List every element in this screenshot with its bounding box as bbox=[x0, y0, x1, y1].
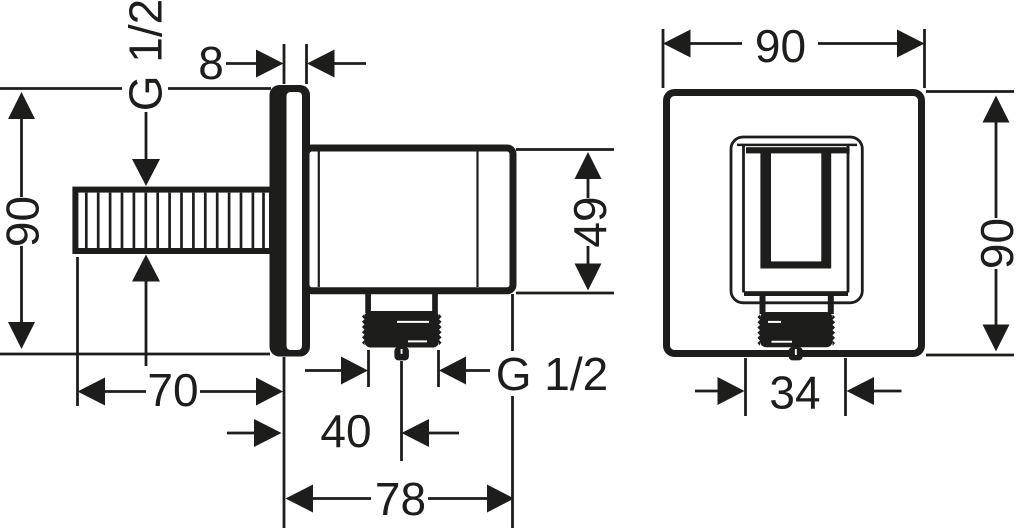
thread highlight streaks (front) bbox=[768, 321, 781, 323]
dim 90 right: arrows, stems, text bbox=[983, 96, 1010, 123]
dim 90 left: arrows and lines bbox=[8, 92, 35, 119]
dim 90 top: extension lines bbox=[662, 29, 665, 88]
holder cube side lines bbox=[742, 146, 745, 293]
outlet thread block (front view) bbox=[760, 312, 833, 347]
svg-text:40: 40 bbox=[320, 405, 371, 457]
dim 90 right: extension lines bbox=[926, 92, 1014, 356]
svg-text:90: 90 bbox=[971, 218, 1023, 269]
dim 78: arrows, lines, text bbox=[286, 485, 314, 513]
dim 70: arrows, line, text bbox=[78, 378, 106, 406]
label G 1/2 (outlet): arrows bbox=[305, 369, 341, 372]
svg-text:G 1/2: G 1/2 bbox=[120, 0, 172, 111]
dim 49: extension lines bbox=[516, 150, 614, 294]
holder cube top inner line bbox=[737, 144, 857, 147]
holder cube bottom line bbox=[744, 291, 848, 296]
svg-text:90: 90 bbox=[755, 20, 806, 72]
outlet neck (front view) bbox=[760, 296, 766, 314]
dim 78: right extension (interrupted by G 1/2 text) bbox=[511, 294, 514, 528]
dim 49: arrows, stems, text bbox=[575, 152, 602, 179]
outlet drip tip (left view) bbox=[394, 347, 409, 360]
square escutcheon (front view) bbox=[667, 93, 922, 354]
outlet neck (left view) bbox=[365, 292, 371, 313]
svg-text:90: 90 bbox=[0, 196, 49, 247]
body (left view) bbox=[306, 148, 513, 291]
svg-text:G 1/2: G 1/2 bbox=[496, 348, 609, 400]
leader line for G 1/2 bbox=[0, 87, 271, 90]
wall pipe outline (left view, threaded connector) bbox=[75, 190, 272, 251]
pipe diameter arrows bbox=[145, 112, 148, 159]
dim 34: extension lines bbox=[744, 358, 747, 416]
dim 40: arrows and text bbox=[227, 432, 254, 435]
thread highlight streaks bbox=[397, 321, 429, 323]
holder window sill bbox=[763, 261, 829, 268]
holder window bars bbox=[760, 148, 771, 269]
dim 90 top: arrows, lines, text bbox=[663, 30, 691, 58]
outlet drip tip (front view) bbox=[789, 347, 803, 360]
escutcheon plate (side profile) bbox=[270, 85, 311, 357]
svg-text:8: 8 bbox=[198, 37, 224, 89]
dim 8: leader and arrows bbox=[226, 62, 256, 65]
body joint line left bbox=[318, 152, 320, 288]
svg-text:70: 70 bbox=[147, 364, 198, 416]
pipe thread hatching bbox=[86, 193, 263, 248]
outlet thread block (left view) bbox=[365, 311, 440, 348]
svg-text:34: 34 bbox=[769, 367, 820, 419]
thread serrations (front view) bbox=[757, 315, 835, 346]
svg-text:49: 49 bbox=[564, 196, 616, 247]
dim 40: outlet axis extension bbox=[400, 361, 403, 461]
holder cube top bar bbox=[746, 147, 850, 153]
body joint line right bbox=[476, 152, 478, 288]
svg-text:78: 78 bbox=[375, 473, 426, 525]
thread serrations (left view) bbox=[362, 314, 442, 345]
dim 34: arrows and text bbox=[695, 390, 718, 393]
dim 70: extension lines bbox=[76, 257, 79, 406]
holder cube outline (front view) bbox=[731, 137, 862, 303]
